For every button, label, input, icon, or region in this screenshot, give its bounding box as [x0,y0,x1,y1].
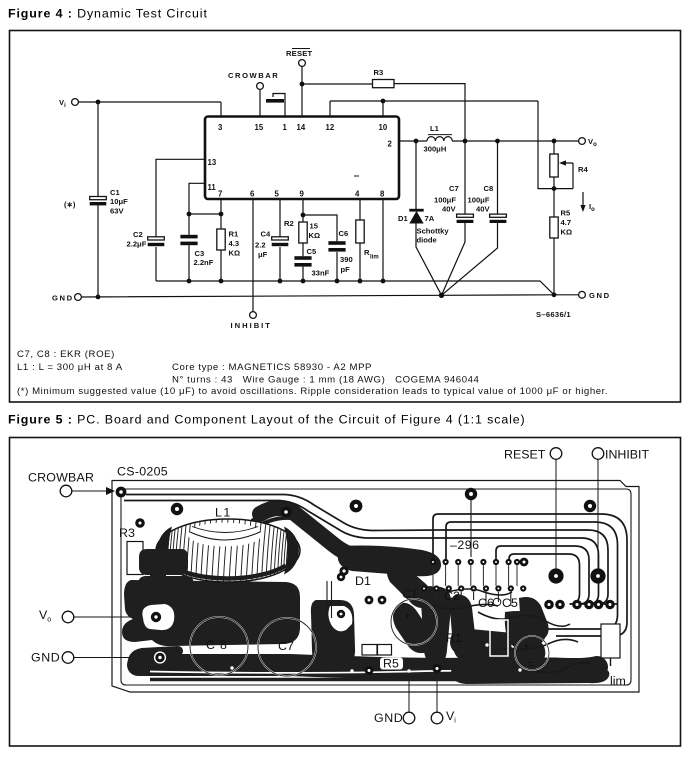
capacitor C6 [328,229,352,281]
svg-text:R2: R2 [284,219,294,228]
pcb gnd pad left [155,652,166,663]
svg-text:Vi: Vi [59,98,66,109]
terminal INHIBIT pcb [592,448,649,571]
node pin8 gnd [381,279,386,284]
pcb cluster wedge [450,628,545,666]
svg-text:C7: C7 [278,639,294,653]
inductor L1 [424,124,453,154]
pcb blob left of coil [139,549,188,575]
pcb free pad [350,500,363,513]
svg-text:=: = [527,657,534,671]
label C1 + pcb [402,587,418,623]
terminal CROWBAR pcb [28,471,115,497]
svg-text:R1: R1 [446,631,462,645]
svg-text:–296: –296 [450,538,480,552]
svg-text:INHIBIT: INHIBIT [231,321,272,330]
svg-text:R1: R1 [229,230,239,239]
pcb pad coil lead [281,507,292,518]
svg-text:2.2: 2.2 [255,241,266,250]
terminal Vo pcb [39,608,153,624]
svg-text:lim: lim [610,674,626,688]
svg-text:S–6636/1: S–6636/1 [536,310,571,319]
svg-text:2.2nF: 2.2nF [194,258,214,267]
pcb pad lead from top pad [470,500,472,557]
terminal Vo [579,138,586,145]
wire pin3 stub [220,102,222,117]
svg-text:D1: D1 [398,214,408,223]
label D1 7A Schottky diode [398,214,449,245]
node R4 bottom [552,186,557,191]
pcb top long trace pair [126,495,440,531]
svg-text:C8: C8 [484,184,494,193]
svg-text:390: 390 [340,255,353,264]
svg-text:RESET: RESET [286,49,312,58]
pcb board outline [112,481,639,693]
svg-text:μF: μF [258,250,268,259]
node star ground [439,293,444,298]
pcb cluster teardrop [450,594,476,660]
svg-text:R5: R5 [383,657,399,671]
pcb bottom gnd band [138,665,597,669]
pcb free pad [584,500,596,512]
svg-text:INHIBIT: INHIBIT [605,448,649,462]
pcb Rlim body [601,624,626,688]
svg-text:8: 8 [380,190,385,199]
capacitor C5 [294,243,329,281]
pcb band blob widening [338,546,441,577]
figure 5 frame [10,438,681,747]
svg-text:13: 13 [208,158,217,167]
svg-text:L1: L1 [215,506,232,520]
capacitor C3 [180,214,213,281]
pcb gnd band right blob [451,660,609,684]
label R5 pcb [380,657,403,671]
svg-text:1: 1 [283,123,288,132]
pcb inner border trace [121,489,631,685]
pcb trace blob under coil (Vo pour) [122,580,300,646]
resistor R3 pcb body [119,518,145,574]
pcb pad row right [544,600,615,610]
svg-text:GND: GND [589,291,611,300]
node C6 gnd [335,279,340,284]
node C3 gnd [187,279,192,284]
pcb Vo keepout slot [142,604,174,630]
wire pin 13 to C2 [156,159,205,281]
svg-text:CROWBAR: CROWBAR [28,471,94,485]
svg-text:C3: C3 [195,249,205,258]
svg-text:C5: C5 [307,247,317,256]
node Rlim gnd [358,279,363,284]
pcb R5 body rects [362,645,392,656]
node Vi/C1 [96,100,101,105]
wire reset stem pin 14 [301,66,303,117]
pcb cluster C1 surround blob [393,603,434,653]
resistor R2 [284,219,320,243]
pcb IC pad row top [430,559,520,565]
arrow Io [580,192,595,213]
pcb cluster vertical strip [421,586,451,665]
node pin9 [301,213,306,218]
pcb Rlim bottom lead [610,658,612,666]
terminal INHIBIT [250,312,257,319]
svg-text:4.7: 4.7 [561,218,572,227]
pcb C1 feed blob [387,560,432,608]
capacitor C4 [255,199,288,281]
svg-text:5: 5 [275,190,280,199]
node C8 [495,139,500,144]
svg-text:Figure 5 : PC. Board and Compo: Figure 5 : PC. Board and Component Layou… [8,412,526,426]
pcb R2 body outline [490,620,508,656]
pcb coil-left bridge blob [150,550,166,578]
svg-text:RESET: RESET [504,448,546,462]
terminal GND right [579,291,586,298]
pcb right trace bundle [433,514,627,636]
node R1 top [219,212,224,217]
svg-text:C6: C6 [339,229,349,238]
pcb C7 body outline [258,618,316,676]
svg-text:3: 3 [218,123,223,132]
node C1 gnd [96,295,101,300]
terminal GND left pcb [31,651,158,665]
node C5 gnd [301,279,306,284]
node R1 gnd [219,279,224,284]
svg-text:Vi: Vi [446,709,456,725]
svg-text:CROWBAR: CROWBAR [228,71,279,80]
pcb IC bottom stubs [436,592,510,606]
pcb coil top lead lines [252,510,290,528]
svg-text:GND: GND [374,711,403,725]
svg-text:C1: C1 [110,188,120,197]
pcb pad top left [171,503,183,515]
svg-text:15: 15 [255,123,264,132]
wire pin 11 node [189,183,221,214]
label C6 C5 pcb [478,596,518,610]
node pin11/C3 [187,212,192,217]
wire feedback line pins 12,10 [330,101,573,189]
pcb band pad [339,566,348,575]
svg-text:40V: 40V [476,205,490,214]
svg-text:CS-0205: CS-0205 [117,465,168,479]
svg-text:+: + [523,639,530,653]
potentiometer R4 [550,141,589,189]
svg-text:KΩ: KΩ [561,228,573,237]
crowbar switch on pin 1 [266,94,285,118]
resistor Rlim [356,199,379,281]
svg-text:GND: GND [52,294,74,303]
wire output rail pin 2 to Vo [399,140,579,142]
pcb wedge pad holes [485,643,514,647]
label C4 + pcb [523,639,534,671]
pcb pad [365,596,374,605]
wire R3 to output node [394,84,465,141]
resistor R3 [373,80,395,88]
svg-text:Io: Io [589,202,595,213]
svg-text:KΩ: KΩ [229,249,241,258]
svg-text:4.3: 4.3 [229,239,240,248]
pcb cluster bridge blob [505,611,546,649]
inductor L1 pcb toroid [156,519,300,582]
svg-text:300μH: 300μH [424,145,447,154]
terminal Vi pcb [431,672,456,725]
capacitor C7 [434,141,473,295]
pcb IC pad row bottom [421,585,526,591]
svg-text:L1: L1 [430,124,440,133]
diode D1 schottky [409,141,441,295]
capacitor C2 [127,230,165,249]
diode D1 pcb leads [327,581,332,618]
resistor R5 [550,189,572,295]
svg-text:C 8: C 8 [206,638,228,652]
svg-text:C2: C2 [444,589,460,603]
svg-text:40V: 40V [442,205,456,214]
pcb Vi pad [432,664,441,673]
pcb D1 strip slot [328,606,352,631]
pcb cluster curves [420,598,498,609]
svg-text:2.2μF: 2.2μF [127,240,147,249]
svg-text:12: 12 [326,123,335,132]
wire crowbar stem [259,89,261,117]
svg-text:Figure 4 : Dynamic Test Circui: Figure 4 : Dynamic Test Circuit [8,7,208,21]
wire pin 9 node [303,199,337,241]
pcb corner pad [116,487,127,498]
svg-text:7A: 7A [425,214,435,223]
capacitor C8 [442,141,507,295]
pcb D1 pad top [337,573,345,581]
svg-text:100μF: 100μF [434,196,456,205]
node C4 gnd [278,279,283,284]
wire to R3 [302,83,373,85]
svg-text:33nF: 33nF [312,269,330,278]
svg-text:L1 : L = 300 μH at 8 A: L1 : L = 300 μH at 8 A [17,362,123,373]
svg-text:pF: pF [341,265,351,274]
svg-text:63V: 63V [110,207,124,216]
pcb pad [378,596,387,605]
node R4 [552,139,557,144]
svg-text:Vo: Vo [39,608,51,624]
node R5 gnd [552,292,557,297]
svg-text:Vo: Vo [588,137,597,148]
svg-text:15: 15 [310,222,319,231]
node reset/R3 [300,82,305,87]
pcb RESET pad [548,568,563,583]
svg-text:C2: C2 [133,230,143,239]
terminal GND left [75,294,82,301]
svg-text:2: 2 [388,140,393,149]
svg-text:9: 9 [300,190,305,199]
svg-text:10μF: 10μF [110,197,128,206]
wire pin 6 inhibit [252,199,254,312]
wire C1 column [97,102,99,297]
svg-text:GND: GND [31,651,60,665]
pcb band lower line [150,678,600,682]
svg-text:4: 4 [355,190,360,199]
node D1 [414,139,419,144]
figure 4 frame [10,31,681,403]
capacitor C1 [90,197,107,206]
pcb Vo pad [151,612,161,622]
pcb pad r5 [365,666,374,675]
svg-text:R4: R4 [578,165,588,174]
terminal Vi [72,99,79,106]
svg-text:C4: C4 [261,230,271,239]
svg-text:7: 7 [218,190,222,199]
pcb band white streak [150,671,490,673]
svg-text:C1: C1 [402,587,418,601]
wire main ground rail [81,295,578,297]
svg-text:C7, C8 : EKR (ROE): C7, C8 : EKR (ROE) [17,349,115,360]
pcb C8 body outline [190,617,248,675]
pcb D1 anode strip [311,600,355,666]
svg-text:Schottky: Schottky [417,227,450,236]
pcb coil lead wedge + diagonal band [260,508,428,563]
wire component ground rail [156,281,554,295]
pcb D1 pad bottom [337,610,345,618]
pcb blob below R3 [138,576,194,596]
svg-text:KΩ: KΩ [309,231,321,240]
node C7/R3 [463,139,468,144]
svg-text:C5: C5 [502,596,518,610]
pcb pad [520,558,529,567]
terminal GND bottom pcb [374,676,415,725]
terminal RESET pcb [504,448,562,571]
resistor R1 [217,214,240,281]
svg-text:R5: R5 [561,209,571,218]
svg-text:Core type : MAGNETICS 58930 -: Core type : MAGNETICS 58930 - A2 MPP [172,362,372,373]
pcb band holes [230,666,521,672]
scan mark [354,175,359,177]
terminal CROWBAR [257,83,264,90]
node pin10 [381,99,386,104]
svg-text:N° turns : 43 Wire Gauge : 1: N° turns : 43 Wire Gauge : 1 mm (18 AWG)… [172,374,480,385]
wire Vi to pin 3 [78,101,221,103]
pcb C1 body outline [391,599,437,645]
svg-text:diode: diode [417,236,437,245]
svg-text:C6: C6 [478,596,494,610]
svg-text:11: 11 [208,183,217,192]
svg-text:D1: D1 [355,574,371,588]
svg-text:R3: R3 [374,68,384,77]
pcb cluster blob right [519,597,549,641]
pcb free pad [465,488,477,500]
label C1 value [110,188,128,216]
svg-text:(*) Minimum suggested value (1: (*) Minimum suggested value (10 μF) to a… [17,386,608,397]
pcb IC leads vertical [433,565,517,586]
pcb C4 body outline [515,636,549,670]
terminal RESET [299,60,306,67]
svg-text:(∗): (∗) [64,200,76,209]
svg-text:lim: lim [370,255,379,261]
svg-text:10: 10 [379,123,388,132]
svg-text:100μF: 100μF [468,196,490,205]
pcb gnd band left hook [133,651,178,666]
wire pin 8 [382,199,384,281]
svg-text:+: + [404,609,411,623]
svg-text:6: 6 [250,190,255,199]
svg-text:C7: C7 [449,184,459,193]
op-amp U1 L296 regulator body [205,117,399,200]
svg-text:R3: R3 [119,526,135,540]
pcb INHIBIT pad [590,568,605,583]
svg-text:14: 14 [297,123,306,132]
